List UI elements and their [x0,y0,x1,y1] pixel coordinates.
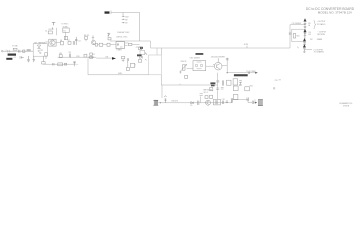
capacitor C24 label [210,82,215,84]
svg-text:R10: R10 [59,53,62,55]
socket X2 [140,50,145,54]
relay K1 [33,44,47,57]
terminal arrow 2 [304,29,307,32]
capacitor C16 [304,33,307,35]
svg-text:C15 2000MF: C15 2000MF [292,23,301,25]
svg-text:R6: R6 [60,40,62,42]
resistor R17 [122,57,125,59]
svg-text:R30 5K: R30 5K [181,61,188,63]
node B+ 13.8V label [105,11,110,13]
terminal input [1,50,3,52]
wire input line [3,50,33,52]
node arrow up [52,22,55,29]
wire y48 left joint [156,48,158,55]
capacitor C33 [247,97,248,101]
svg-text:Q1: Q1 [46,41,48,43]
resistor R7 [68,42,71,45]
connector J3 pin 2 [122,19,125,20]
arrow to T1 [255,72,258,74]
resistor R31 [185,75,188,78]
terminal arrow 1 [304,18,307,21]
diode D5 [191,102,194,104]
wire riser to output [289,25,291,48]
capacitor C8 [128,43,132,45]
svg-text:20V: 20V [308,23,311,25]
wire long feedback bottom [88,74,149,76]
resistor R21 [138,60,141,63]
resistor R45 [210,87,213,90]
svg-text:R9 2.2K: R9 2.2K [88,57,95,59]
inductor L1 [27,50,31,52]
svg-text:CW: CW [105,57,108,59]
svg-text:TO CHASSIS: TO CHASSIS [314,51,325,54]
trimmer R14 [107,33,110,36]
resistor R15 [95,44,97,47]
resistor R42 [210,95,213,98]
capacitor C14 [131,63,135,67]
svg-text:C32: C32 [222,99,225,101]
diode D2 [90,53,93,55]
plates [289,33,291,34]
diode D1 [37,45,40,48]
trimmer R30 [182,65,185,70]
svg-text:RT1 THERMAL: RT1 THERMAL [34,41,46,44]
capacitor C2 [20,56,24,58]
resistor R20 [138,47,141,50]
transistor Q5 [214,62,222,70]
wire stub right [75,63,79,65]
connector J3 pin 3 [122,22,125,23]
capacitor C25 [222,80,223,85]
svg-text:C11: C11 [78,40,81,42]
capacitor C30 arrow [164,96,166,103]
box upper right of chain [233,86,238,91]
svg-text:3T947B: 3T947B [343,105,350,107]
svg-text:14: 14 [45,30,47,32]
node 12.6V label [8,54,16,56]
capacitor C10 [73,41,74,45]
svg-text:R11: R11 [76,56,79,58]
wire bottom chain [158,102,232,104]
wire T leg down [161,85,163,98]
wire K2 down [65,32,67,40]
resistor R33 [227,80,232,85]
svg-text:S1: S1 [63,30,65,32]
resistor R5 [48,31,52,34]
svg-text:C2: C2 [14,57,16,59]
wire T1 right leg [160,48,162,85]
transistor Q6 [206,100,211,105]
svg-text:100KHZ OSC: 100KHZ OSC [117,32,130,34]
wire Q1 out [56,42,60,44]
small comps [200,94,203,96]
wire bottom bus [161,84,217,86]
resistor R10c [64,63,66,65]
resistor R2 [42,56,44,64]
fuse F1 [13,48,17,50]
svg-text:OSC 100KHZ: OSC 100KHZ [190,57,200,59]
capacitor C17 [303,42,306,45]
resistor R6 [61,41,64,45]
resistor R43 [231,98,232,103]
svg-text:P19: P19 [275,80,278,82]
resistor R34 [233,79,238,85]
transformer T2 [153,100,158,105]
terminal column [303,21,306,47]
capacitor C11 [75,37,77,45]
capacitor C6 [107,43,110,46]
transformer T1 primary loop [149,55,162,75]
capacitor C4 [33,56,36,62]
wire Q5 out [222,65,227,67]
capacitor C19 [303,49,305,52]
resistor R10b [58,63,63,66]
waveform label [234,74,248,76]
output jack J5 [258,100,263,106]
svg-text:D5: D5 [190,105,192,107]
svg-text:D2: D2 [93,54,95,56]
wire gnd terminal [304,48,312,50]
relay K3 [233,94,238,99]
svg-text:50V: 50V [308,34,311,36]
capacitor C34 [252,101,253,104]
transistor Q2 [91,40,95,44]
wire mid row [96,57,112,59]
capacitor C31 [198,101,199,105]
resistor R41 [205,96,208,99]
connector J6 tick [246,46,248,48]
capacitor C20 [179,71,181,74]
wire into U1 [93,44,116,46]
wire right leg down [139,12,141,41]
svg-text:LM741 OSC: LM741 OSC [116,37,128,39]
svg-text:R40 470: R40 470 [172,100,178,102]
node tap J3 [122,12,124,15]
wire vertical x217.7 [217,73,219,100]
junction [227,72,228,73]
ticks [145,54,147,61]
svg-text:S1 SW: S1 SW [63,27,68,29]
wire B plus leg [56,28,58,36]
capacitor C5 [108,38,111,40]
contact K1a [38,50,39,51]
wire feedback [87,58,89,74]
svg-text:TIMER: TIMER [116,49,122,51]
label Q4 [196,53,204,55]
rectifier module box [292,29,305,41]
node INPUT label [6,58,12,60]
junction [160,102,161,103]
capacitor C12 [69,54,70,58]
arrow into jack [255,102,257,104]
capacitor C15 [304,23,307,27]
marks below [216,88,223,90]
resistor R10 [59,55,62,58]
svg-text:15V: 15V [310,39,313,41]
op-amp U1 [116,42,125,49]
svg-text:TO T1 TERM: TO T1 TERM [246,71,256,73]
resistor R19 [126,68,129,71]
capacitor C18 [303,48,306,49]
capacitor C3 [27,56,30,62]
relay K2 [63,28,69,32]
svg-text:MODEL NO. 3T947B 12V: MODEL NO. 3T947B 12V [318,11,352,15]
wire into jack [253,99,255,102]
resistor R3 [45,53,47,56]
capacitor C22 [248,72,249,75]
svg-text:R24: R24 [297,36,300,38]
resistor R24 [293,33,295,38]
svg-text:TO PIN 5: TO PIN 5 [61,24,68,26]
capacitor C21 [226,59,229,60]
connector J3 pin 1 [122,16,125,17]
wire lower chain [58,56,97,58]
capacitor C13 [127,58,128,63]
wire column [92,35,94,40]
resistor R44 [245,87,250,91]
resistor R12 [84,54,87,57]
svg-text:TP1: TP1 [40,50,43,52]
brace output [314,20,316,28]
capacitor C26 [239,81,242,85]
svg-text:NO. 2: NO. 2 [204,92,208,94]
terminal arrow 4 [303,44,306,47]
wire vertical x227 [226,58,228,73]
svg-text:R7: R7 [68,40,70,42]
resistor R18 [140,47,143,49]
tick J2 [274,87,275,89]
svg-text:J6 P6: J6 P6 [244,44,248,46]
wire y72.7 [227,72,255,74]
label X2 dark [137,54,142,56]
resistor R1 [23,50,25,52]
resistor R16 [99,43,103,46]
wire trim to box [187,68,193,70]
capacitor C23 [216,81,219,82]
svg-text:R44: R44 [250,85,253,87]
svg-text:C16: C16 [308,32,311,34]
transformer T3 [213,99,220,105]
wire relay out [43,63,74,65]
capacitor C12c [73,61,76,66]
tick [297,47,299,49]
wire jog [232,99,252,103]
terminal arrow 3 [303,38,306,41]
wire to terminal column [290,24,305,26]
wire top rail [111,11,140,15]
wire up to note [200,96,202,102]
signal arrow [112,57,116,60]
capacitor C1 [19,50,20,53]
wire U1 output pins [125,43,129,45]
diode D3 [140,56,143,59]
capacitor C12b [53,63,54,66]
transistor Q1 [49,39,56,46]
svg-text:TO RADIO: TO RADIO [317,23,326,26]
wire long rail y48 [151,41,291,48]
junction tick [179,84,181,85]
wire to right leg [132,43,140,45]
capacitor C9 [64,36,67,39]
svg-text:F1 3A: F1 3A [12,45,18,48]
svg-text:RETURN: RETURN [317,34,325,36]
wire osc rail [110,40,151,42]
svg-text:C12: C12 [68,52,71,54]
svg-text:2SC1061 DRIVER: 2SC1061 DRIVER [211,56,226,58]
